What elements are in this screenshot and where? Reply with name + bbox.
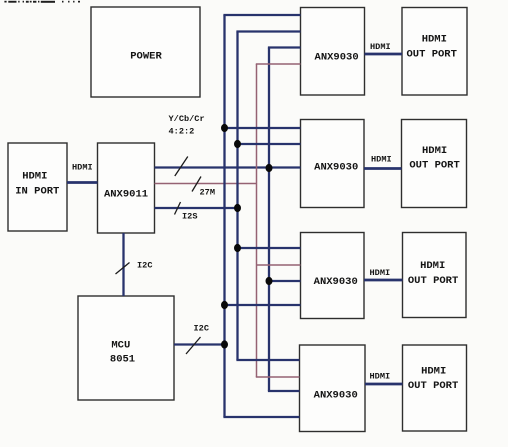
wire bus to ANX9030 row4 pin1: [236, 359, 299, 361]
svg-text:4:2:2: 4:2:2: [169, 127, 195, 137]
svg-text:I2C: I2C: [137, 261, 152, 271]
wire Y/Cb/Cr 4:2:2 video from ANX9011 to row2: [155, 114, 301, 176]
svg-text:HDMI: HDMI: [422, 145, 447, 157]
svg-text:OUT PORT: OUT PORT: [406, 49, 456, 61]
hdmi out port box 3: [403, 233, 467, 318]
mcu U6 MCU 8051: [78, 296, 174, 400]
junction I2S bus row3: [234, 244, 241, 252]
hdmi out port box 4: [403, 345, 467, 431]
wire HDMI out link 4: [365, 372, 403, 385]
wire I2C ANX9011 to MCU: [116, 233, 153, 296]
svg-text:27M: 27M: [200, 188, 215, 198]
receiver U1 ANX9011: [98, 143, 155, 233]
junction video bus row2: [266, 164, 273, 172]
transmitter U3 ANX9030 (row 2): [301, 120, 365, 208]
svg-text:HDMI: HDMI: [421, 366, 446, 378]
svg-text:HDMI: HDMI: [370, 268, 391, 278]
svg-text:OUT PORT: OUT PORT: [409, 160, 459, 172]
wire bus to ANX9030 row4 pin3: [268, 390, 300, 392]
svg-text:I2S: I2S: [182, 212, 197, 222]
svg-text:HDMI: HDMI: [72, 163, 93, 173]
wire red bus to ANX9030 row3 pin2: [257, 264, 301, 266]
svg-text:HDMI: HDMI: [371, 155, 392, 165]
junction I2C bus row2: [221, 124, 228, 132]
wire bus to ANX9030 row2 pin1: [225, 127, 301, 129]
junction video bus row3: [266, 277, 273, 285]
svg-text:HDMI: HDMI: [22, 171, 47, 183]
svg-text:ANX9030: ANX9030: [314, 390, 358, 402]
bus I2C vertical: [223, 15, 225, 417]
junction I2S bus row2: [234, 140, 241, 148]
hdmi out port box 1: [402, 8, 467, 96]
hdmi in port box: [8, 143, 67, 231]
transmitter U2 ANX9030 (row 1): [301, 8, 365, 96]
svg-text:ANX9030: ANX9030: [314, 276, 358, 288]
wire bus to ANX9030 row1 pin2: [236, 30, 300, 32]
junction I2C line end: [221, 340, 228, 348]
svg-text:ANX9030: ANX9030: [315, 52, 359, 64]
transmitter U5 ANX9030 (row 4): [300, 345, 366, 432]
wire bus to ANX9030 row3 pin3: [269, 280, 301, 282]
svg-text:POWER: POWER: [130, 51, 162, 63]
svg-text:HDMI: HDMI: [422, 34, 447, 46]
hdmi out port box 2: [402, 120, 467, 208]
wire red bus to ANX9030 row4 pin2: [256, 376, 300, 378]
wire bus to ANX9030 row4 pin4: [223, 416, 299, 418]
svg-text:HDMI: HDMI: [370, 42, 391, 52]
wire I2C MCU to bus: [174, 324, 225, 355]
bus 27M vertical (red): [256, 64, 258, 377]
junction I2C bus row3: [221, 301, 228, 309]
svg-text:MCU: MCU: [111, 339, 130, 351]
wire I2S from ANX9011: [155, 202, 238, 222]
wire bus to ANX9030 row3 pin4: [225, 304, 301, 306]
wire bus to ANX9030 row1 pin1: [223, 14, 300, 16]
bus video vertical: [268, 48, 270, 392]
svg-text:OUT PORT: OUT PORT: [408, 380, 458, 392]
svg-text:ANX9030: ANX9030: [314, 162, 358, 174]
wire HDMI out link 3: [364, 268, 403, 280]
svg-text:IN PORT: IN PORT: [15, 186, 59, 198]
wire HDMI input link: [67, 163, 98, 183]
svg-text:ANX9011: ANX9011: [104, 189, 148, 201]
svg-text:Y/Cb/Cr: Y/Cb/Cr: [169, 114, 205, 124]
svg-text:OUT PORT: OUT PORT: [408, 275, 458, 287]
wire 27M clock (red) from ANX9011: [155, 177, 257, 198]
cropped header text fragments: [4, 1, 80, 3]
svg-text:I2C: I2C: [194, 324, 209, 334]
bus I2S vertical: [236, 32, 238, 361]
power box PWR: [91, 7, 200, 97]
svg-text:HDMI: HDMI: [420, 260, 445, 272]
junction I2S line end: [234, 204, 241, 212]
svg-text:8051: 8051: [110, 354, 135, 366]
wire HDMI out link 1: [365, 42, 403, 54]
svg-text:HDMI: HDMI: [370, 372, 391, 382]
wire bus to ANX9030 row3 pin1: [238, 247, 301, 249]
wire HDMI out link 2: [364, 155, 402, 169]
wire red bus to ANX9030 row1 pin4: [256, 63, 301, 65]
transmitter U4 ANX9030 (row 3): [301, 233, 365, 319]
wire bus to ANX9030 row1 pin3: [268, 46, 301, 48]
wire bus to ANX9030 row2 pin2: [238, 143, 301, 145]
